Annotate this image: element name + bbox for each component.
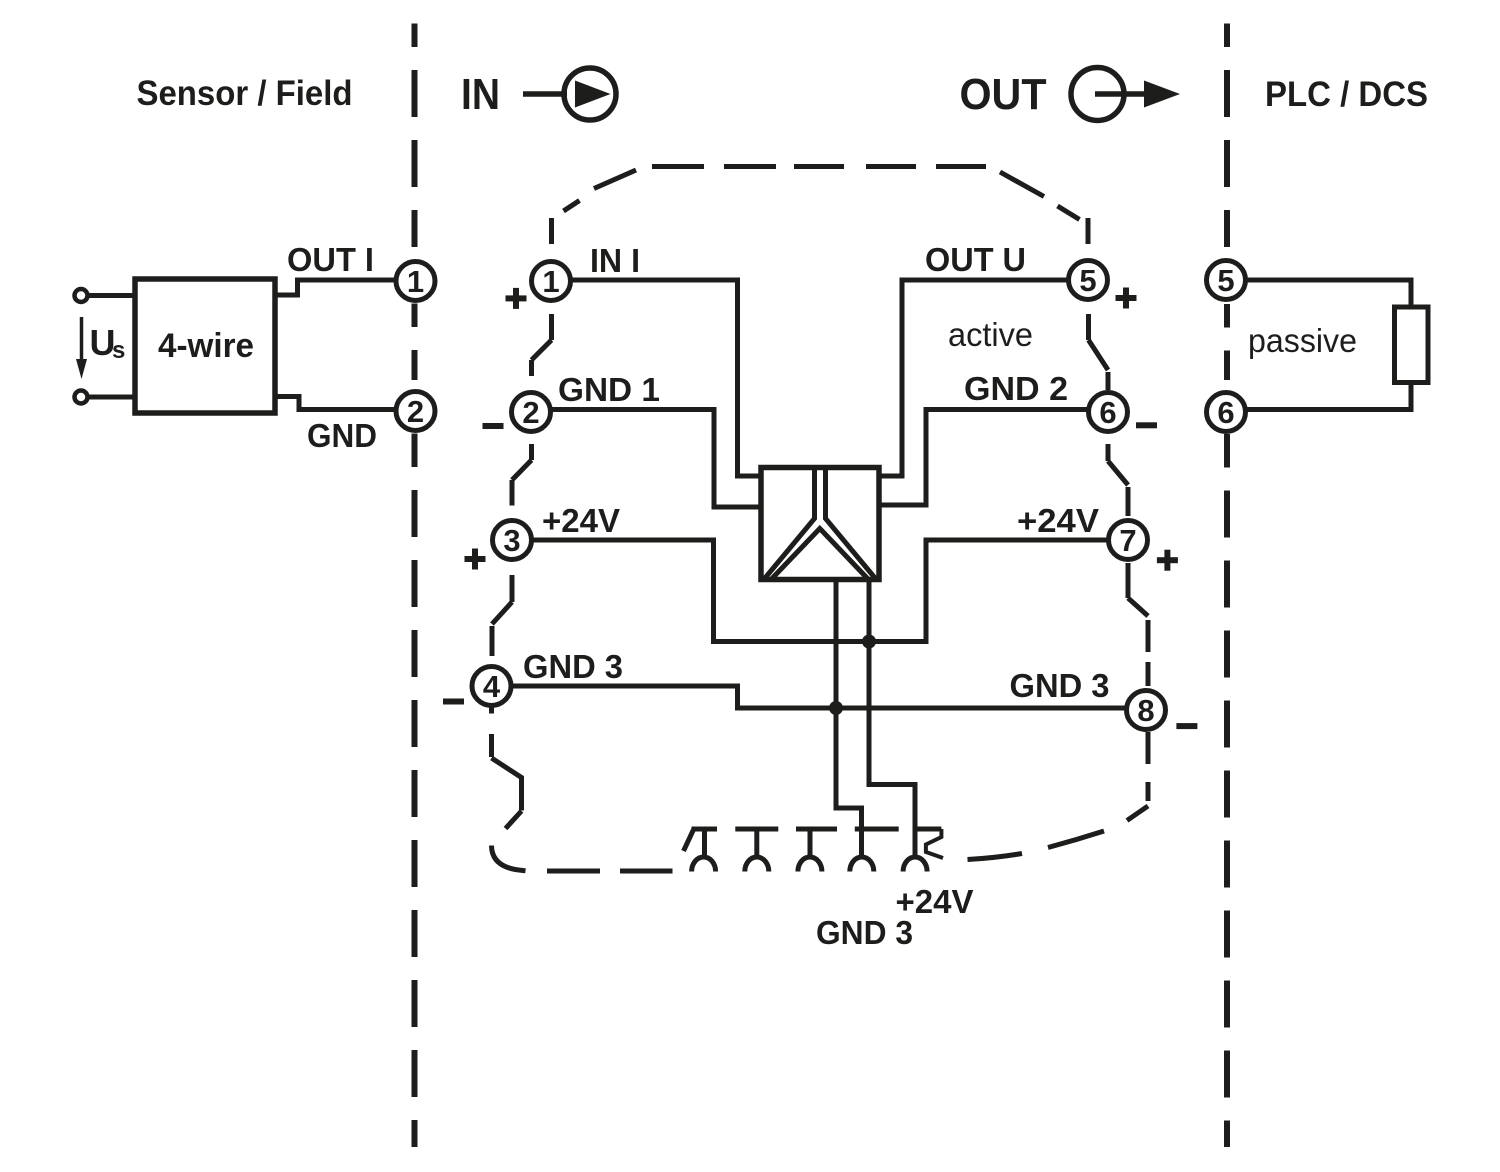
ground bridge 2 [735,829,778,872]
device terminal 2 [512,393,551,432]
minus sign terminal 6 [1136,422,1157,428]
svg-text:+24V: +24V [1017,502,1099,539]
svg-text:2: 2 [522,395,539,430]
svg-text:8: 8 [1137,693,1154,728]
separator dashed line right [1224,24,1230,1148]
source terminal circle upper [75,289,88,302]
wire load resistor to PLC terminal 6 [1245,381,1411,410]
svg-text:Sensor / Field: Sensor / Field [137,74,353,113]
wire source upper to 4-wire box [87,293,137,298]
PLC terminal 6 [1207,393,1246,432]
minus sign terminal 2 [483,423,504,429]
wire PLC terminal 5 to load resistor [1245,280,1411,309]
svg-text:GND 3: GND 3 [816,914,913,951]
svg-text:5: 5 [1079,263,1096,298]
junction dot +24V [862,635,876,649]
wire +24V terminal 3 to terminal 7 [531,540,1109,642]
svg-text:6: 6 [1217,395,1234,430]
ground bridge 1 [684,829,718,872]
wire isolator bottom GND 3 to ground bridge 4 [836,577,862,860]
device terminal 6 [1089,393,1128,432]
svg-text:+24V: +24V [542,502,620,539]
wire source lower to 4-wire box [87,395,137,400]
device outline dashes below terminal 8 [968,732,1149,860]
ground bridge 4 [850,829,899,872]
device outline dashes terminal 6 to 7 [1108,444,1128,516]
wire GND 2 terminal 6 to isolator [879,410,1088,506]
wire GND from box to terminal 2 [275,397,396,410]
plus sign terminal 7 [1157,550,1178,571]
svg-text:OUT: OUT [960,70,1047,119]
svg-text:PLC / DCS: PLC / DCS [1265,75,1428,114]
isolator Y divider left branch [765,468,815,579]
svg-text:GND 3: GND 3 [1010,667,1110,704]
svg-text:GND 1: GND 1 [558,371,660,408]
device terminal 1 [532,262,571,301]
device terminal 4 [472,667,511,706]
svg-text:5: 5 [1217,263,1234,298]
svg-text:GND 2: GND 2 [964,370,1068,407]
device outline bottom dashes [547,869,600,874]
svg-text:OUT U: OUT U [925,241,1026,278]
device outline top dashed arc [552,167,1089,245]
wire GND 3 terminal 4 to terminal 8 [511,686,1127,708]
ground bridge 3 [796,829,837,872]
field terminal 2 [396,392,435,431]
separator dashed line left [412,24,418,1148]
svg-text:4-wire: 4-wire [158,327,254,365]
svg-text:2: 2 [407,394,424,429]
minus sign terminal 8 [1176,723,1197,729]
IN flow icon [523,68,616,120]
PLC terminal 5 [1207,261,1246,300]
device outline dashes terminal 7 to 8 [1128,563,1148,686]
minus sign terminal 4 [443,699,464,705]
field terminal 1 [396,262,435,301]
wire OUT I from box to terminal 1 [275,280,396,295]
plus sign terminal 5 [1116,288,1137,309]
transmitter 4-wire box [135,279,275,413]
wire isolator bottom +24V to ground bridge 5 [869,577,915,860]
wire IN I terminal 1 to isolator [570,280,761,476]
wire GND 1 terminal 2 to isolator [550,410,761,508]
device terminal 3 [493,521,532,560]
svg-text:4: 4 [483,669,501,704]
source terminal circle lower [75,391,88,404]
plus sign terminal 3 [465,549,486,570]
svg-text:IN: IN [461,70,500,119]
device outline dashes terminal 5 to 6 [1089,314,1109,390]
svg-text:6: 6 [1099,395,1116,430]
ground bridge 5 with disconnect [903,829,943,872]
junction dot GND 3 [829,701,843,715]
svg-text:7: 7 [1119,523,1136,558]
OUT flow icon [1071,68,1180,121]
svg-text:1: 1 [542,264,559,299]
device terminal 8 [1127,691,1166,730]
load resistor [1395,307,1429,383]
svg-text:OUT I: OUT I [287,241,374,278]
device outline dashes terminal 1 to 2 [532,314,552,376]
svg-text:GND 3: GND 3 [523,648,623,685]
isolator Y divider inner V [772,529,868,579]
wire OUT U terminal 5 to isolator [879,280,1069,476]
plus sign terminal 1 [506,288,527,309]
isolator Y divider right branch [826,468,876,579]
svg-text:GND: GND [307,417,377,454]
svg-text:active: active [948,316,1033,353]
device terminal 7 [1109,521,1148,560]
device outline dashes terminal 3 to 4 [492,575,512,656]
device outline dashes terminal 2 to 3 [512,444,532,506]
Us voltage arrow [76,317,87,379]
svg-text:s: s [112,337,125,364]
device terminal 5 [1069,261,1108,300]
svg-text:3: 3 [503,523,520,558]
svg-text:passive: passive [1248,322,1357,359]
device outline bottom left corner [492,846,526,871]
device outline dashes below terminal 4 [492,706,522,829]
svg-text:IN I: IN I [590,242,640,279]
isolation amplifier box [761,468,879,580]
svg-text:1: 1 [407,264,424,299]
